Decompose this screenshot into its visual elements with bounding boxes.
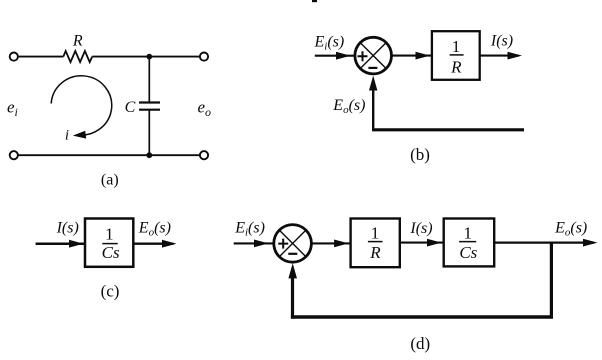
- node top junction: [146, 54, 152, 60]
- svg-text:Ei(s): Ei(s): [234, 220, 265, 239]
- block 1/Cs (d): [444, 219, 495, 267]
- svg-text:i: i: [65, 128, 69, 144]
- svg-text:1: 1: [452, 37, 461, 56]
- svg-text:(c): (c): [101, 281, 120, 300]
- svg-text:I(s): I(s): [490, 33, 513, 50]
- value 1/Cs bar (d): [459, 241, 476, 243]
- svg-text:I(s): I(s): [409, 220, 432, 237]
- resistor R: [63, 51, 92, 62]
- block 1/R (d): [351, 219, 400, 268]
- arrowhead into block 1/R (d): [334, 240, 349, 248]
- svg-text:R: R: [450, 57, 462, 76]
- block 1/R (b): [432, 31, 480, 80]
- wire block 1/R to block 1/Cs (d): [400, 242, 444, 244]
- wire summer to block (b): [392, 55, 432, 57]
- wire top right segment: [92, 56, 200, 58]
- wire capacitor lower: [148, 110, 150, 156]
- feedback wire horizontal (b): [372, 128, 524, 131]
- svg-text:(d): (d): [410, 334, 430, 353]
- svg-text:R: R: [369, 243, 381, 262]
- wire input (b): [315, 55, 355, 57]
- svg-text:Cs: Cs: [459, 243, 477, 262]
- arrowhead input (c): [69, 240, 84, 248]
- terminal top-left: [10, 53, 18, 61]
- value 1/R bar (b): [450, 54, 464, 56]
- arrowhead output (d): [583, 239, 598, 247]
- arrowhead output (c): [162, 240, 177, 248]
- svg-text:Eo(s): Eo(s): [332, 97, 365, 116]
- arrowhead into block (b): [416, 52, 431, 60]
- summing junction circle (d): [274, 225, 312, 263]
- minus sign (d): [288, 253, 297, 255]
- svg-text:1: 1: [463, 224, 472, 243]
- feedback arrowhead up (b): [369, 76, 377, 91]
- node bottom junction: [146, 152, 152, 158]
- value 1/Cs bar (c): [102, 243, 117, 245]
- wire input (d): [234, 242, 274, 244]
- feedback bottom horizontal wire (d): [291, 315, 553, 318]
- block 1/Cs (c): [85, 219, 133, 267]
- wire output (d): [494, 242, 594, 244]
- wire capacitor upper: [148, 57, 150, 103]
- capacitor C plates: [139, 101, 160, 103]
- feedback arrowhead up (d): [288, 263, 297, 278]
- svg-text:I(s): I(s): [56, 220, 79, 237]
- loop current arrow arc: [51, 76, 112, 135]
- wire output (c): [133, 242, 173, 244]
- terminal bottom-left: [10, 151, 18, 159]
- summing junction X diagonals (d): [279, 230, 306, 257]
- arrowhead into block 1/Cs (d): [427, 239, 442, 247]
- summing junction circle (b): [355, 37, 392, 74]
- svg-text:Cs: Cs: [102, 243, 120, 262]
- plus sign (b): [358, 51, 368, 61]
- feedback left vertical wire (d): [291, 276, 294, 319]
- wire summer to block 1/R (d): [311, 242, 350, 244]
- svg-text:ei: ei: [7, 98, 18, 120]
- summing junction X diagonals (b): [360, 43, 386, 69]
- terminal top-right: [200, 53, 208, 61]
- wire bottom: [19, 154, 201, 156]
- svg-text:eo: eo: [198, 98, 212, 120]
- plus sign (d): [278, 239, 288, 249]
- svg-text:1: 1: [105, 225, 114, 244]
- svg-text:C: C: [125, 99, 136, 116]
- svg-text:Eo(s): Eo(s): [554, 220, 587, 239]
- wire top left segment: [19, 56, 64, 58]
- feedback wire vertical (b): [372, 88, 374, 130]
- loop current arrowhead: [73, 131, 86, 139]
- svg-text:1: 1: [371, 224, 380, 243]
- cropped figure-number mark at top edge: [312, 0, 317, 2]
- svg-text:Eo(s): Eo(s): [138, 220, 171, 239]
- svg-text:R: R: [72, 33, 83, 50]
- arrowhead output (b): [508, 52, 523, 60]
- wire input (c): [36, 242, 85, 245]
- arrowhead input (d): [254, 240, 269, 248]
- minus sign (b): [368, 67, 377, 69]
- arrowhead input (b): [336, 52, 351, 60]
- value 1/R bar (d): [368, 241, 383, 243]
- svg-text:(b): (b): [410, 145, 430, 164]
- wire output (b): [480, 55, 519, 57]
- svg-text:Ei(s): Ei(s): [314, 34, 345, 53]
- svg-text:(a): (a): [101, 172, 119, 189]
- feedback takeoff vertical wire (d): [550, 243, 553, 317]
- terminal bottom-right: [200, 151, 208, 159]
